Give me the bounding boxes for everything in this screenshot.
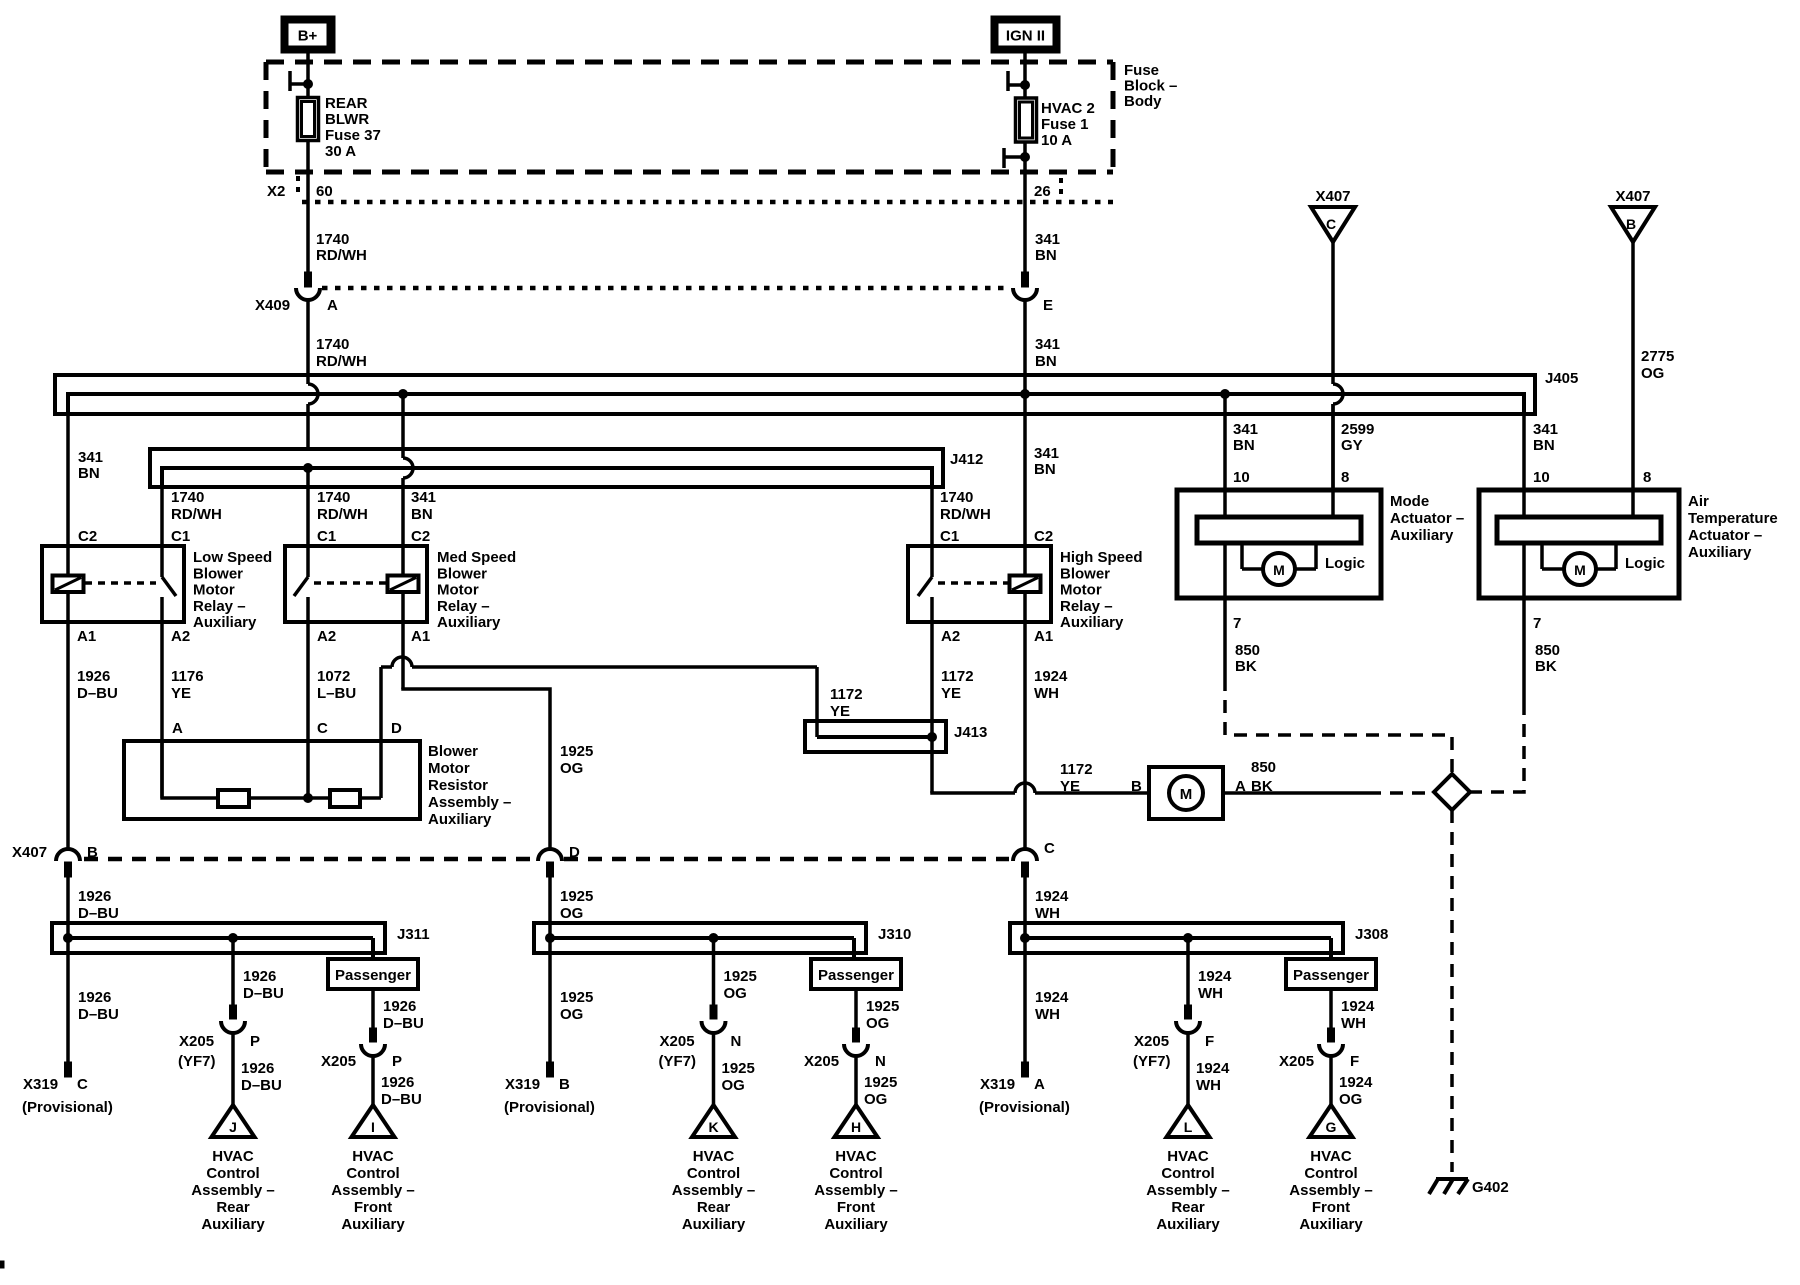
label X205 (YF7) P	[178, 1033, 260, 1070]
svg-text:2599: 2599	[1341, 421, 1374, 438]
svg-text:X407: X407	[12, 844, 47, 861]
svg-text:60: 60	[316, 183, 333, 200]
wire J311 to X319 C	[65, 953, 119, 1077]
label X205 P (right)	[321, 1053, 402, 1070]
junction dot J405 x1025	[1021, 390, 1030, 547]
svg-text:(Provisional): (Provisional)	[22, 1099, 113, 1116]
svg-text:X407: X407	[1315, 188, 1350, 205]
label J412	[950, 451, 983, 468]
svg-text:RD/WH: RD/WH	[316, 247, 367, 264]
svg-text:A1: A1	[411, 628, 430, 645]
label Air Temperature Actuator - Auxiliary	[1688, 493, 1778, 561]
svg-text:C: C	[1326, 216, 1336, 232]
svg-text:OG: OG	[722, 1077, 745, 1094]
svg-text:A2: A2	[171, 628, 190, 645]
svg-text:1924: 1924	[1034, 668, 1068, 685]
svg-text:BN: BN	[1035, 353, 1057, 370]
splice pack J308	[1010, 923, 1343, 959]
label X319 A (Provisional)	[979, 1076, 1070, 1116]
svg-text:Assembly –: Assembly –	[331, 1182, 414, 1199]
svg-text:Logic: Logic	[1325, 555, 1365, 572]
label 1172 YE (resistor D to J413)	[830, 686, 863, 720]
svg-text:10: 10	[1533, 469, 1550, 486]
svg-text:BN: BN	[411, 506, 433, 523]
svg-text:850: 850	[1251, 759, 1276, 776]
wire X205 to HVAC control H	[856, 1056, 897, 1108]
svg-text:C: C	[1044, 840, 1055, 857]
label J413	[954, 724, 987, 741]
svg-text:Actuator –: Actuator –	[1390, 510, 1464, 527]
svg-text:OG: OG	[864, 1091, 887, 1108]
svg-text:Front: Front	[1312, 1199, 1350, 1216]
label HVAC Control Assembly - Rear Auxiliary	[191, 1148, 274, 1233]
wire mode pin 7 (850 BK) to ground splice	[1225, 598, 1452, 774]
svg-text:Temperature: Temperature	[1688, 510, 1778, 527]
svg-text:Auxiliary: Auxiliary	[1390, 527, 1454, 544]
svg-text:C1: C1	[940, 528, 959, 545]
wire J412 to high relay C1	[930, 487, 934, 546]
svg-text:HVAC 2: HVAC 2	[1041, 100, 1095, 117]
svg-text:Assembly –: Assembly –	[672, 1182, 755, 1199]
svg-text:HVAC: HVAC	[693, 1148, 735, 1165]
svg-text:WH: WH	[1341, 1015, 1366, 1032]
svg-text:A: A	[1034, 1076, 1045, 1093]
svg-text:WH: WH	[1198, 985, 1223, 1002]
passenger option box (J308)	[1286, 959, 1376, 989]
connector triangle I	[352, 1105, 395, 1137]
svg-text:A: A	[327, 297, 338, 314]
svg-text:C2: C2	[1034, 528, 1053, 545]
svg-text:1172: 1172	[941, 668, 974, 685]
svg-text:Control: Control	[1304, 1165, 1357, 1182]
splice pack J310	[534, 923, 866, 959]
label 1740 RD/WH C1 (high relay)	[940, 489, 991, 545]
connector triangle L	[1167, 1105, 1210, 1137]
wire J308 to X319 A	[1022, 953, 1070, 1077]
svg-text:HVAC: HVAC	[1310, 1148, 1352, 1165]
label Mode Actuator - Auxiliary	[1390, 493, 1464, 544]
svg-text:Blower: Blower	[428, 743, 478, 760]
svg-text:8: 8	[1341, 469, 1349, 486]
svg-text:YE: YE	[941, 685, 961, 702]
svg-text:B: B	[1131, 778, 1142, 795]
label J405	[1545, 370, 1578, 387]
svg-text:G402: G402	[1472, 1179, 1509, 1196]
wire Passenger to X205 pin N	[844, 989, 899, 1056]
svg-text:X205: X205	[1279, 1053, 1314, 1070]
svg-text:1176: 1176	[171, 668, 204, 685]
svg-text:850: 850	[1235, 642, 1260, 659]
svg-text:G: G	[1326, 1119, 1337, 1135]
junction dot J405 x403	[399, 390, 408, 399]
svg-text:Med Speed: Med Speed	[437, 549, 516, 566]
svg-text:Assembly –: Assembly –	[191, 1182, 274, 1199]
svg-text:RD/WH: RD/WH	[940, 506, 991, 523]
svg-text:Control: Control	[346, 1165, 399, 1182]
relay: High Speed Blower Motor Relay - Auxiliary	[908, 546, 1143, 631]
wire J311 to X205 (YF7) pin P	[221, 938, 284, 1033]
label 1072 L-BU	[317, 668, 356, 702]
fuse 37 clip	[290, 71, 313, 91]
wire X205 to HVAC control L	[1188, 1033, 1230, 1106]
label X205 (YF7) N	[659, 1033, 742, 1070]
label Logic (air temp)	[1625, 555, 1665, 572]
svg-text:Passenger: Passenger	[1293, 967, 1369, 984]
svg-text:Actuator –: Actuator –	[1688, 527, 1762, 544]
svg-text:M: M	[1273, 562, 1285, 578]
label X2 pin 60	[267, 183, 333, 200]
label X319 C (Provisional)	[22, 1076, 113, 1116]
svg-text:341: 341	[1034, 445, 1059, 462]
label HVAC Control Assembly - Rear Auxiliary	[1146, 1148, 1229, 1233]
fuse block - body dashed outline	[266, 62, 1113, 172]
svg-text:1924: 1924	[1341, 998, 1375, 1015]
svg-text:Rear: Rear	[216, 1199, 250, 1216]
svg-text:C1: C1	[171, 528, 190, 545]
label 1924 WH (high A1)	[1034, 668, 1068, 702]
svg-text:Motor: Motor	[1060, 582, 1102, 599]
page artifact mark bottom-left	[0, 1261, 4, 1268]
svg-text:1172: 1172	[1060, 761, 1093, 778]
label 341 BN C2 (med relay)	[411, 489, 436, 545]
svg-text:341: 341	[1035, 231, 1060, 248]
passenger option box (J310)	[811, 959, 901, 989]
label HVAC 2 Fuse 1 10 A	[1041, 100, 1095, 149]
label 1925 OG (med A1)	[560, 743, 593, 777]
svg-text:B: B	[1626, 216, 1636, 232]
wire X205 to HVAC control I	[373, 1056, 422, 1108]
svg-text:BN: BN	[1533, 437, 1555, 454]
svg-text:BN: BN	[1034, 461, 1056, 478]
svg-text:1926: 1926	[381, 1074, 414, 1091]
svg-text:1925: 1925	[560, 989, 593, 1006]
label 1926 D-BU (low A1)	[77, 668, 118, 702]
svg-text:BN: BN	[78, 465, 100, 482]
svg-text:1740: 1740	[316, 231, 349, 248]
svg-text:7: 7	[1233, 615, 1241, 632]
connector X407 D	[538, 844, 580, 877]
label 2775 OG	[1641, 348, 1674, 382]
label J310	[878, 926, 911, 943]
connector triangle H	[835, 1105, 878, 1137]
wire med relay A2 to resistor pin C (1072 L-BU)	[306, 622, 310, 798]
svg-text:1925: 1925	[560, 888, 593, 905]
label 341 BN C2 (high relay)	[1034, 445, 1059, 545]
label HVAC Control Assembly - Front Auxiliary	[814, 1148, 897, 1233]
svg-text:Auxiliary: Auxiliary	[824, 1216, 888, 1233]
wire J405 to low relay C2 (341 BN)	[66, 414, 70, 546]
air temp actuator motor M	[1542, 543, 1616, 585]
svg-text:D–BU: D–BU	[77, 685, 118, 702]
wire 1924 WH X407 to J308	[1025, 877, 1069, 953]
svg-text:X205: X205	[660, 1033, 695, 1050]
svg-text:Control: Control	[687, 1165, 740, 1182]
svg-text:Motor: Motor	[428, 760, 470, 777]
svg-text:Passenger: Passenger	[335, 967, 411, 984]
svg-text:1925: 1925	[866, 998, 899, 1015]
label Fuse Block - Body	[1124, 62, 1177, 110]
svg-text:K: K	[708, 1119, 718, 1135]
svg-text:Assembly –: Assembly –	[814, 1182, 897, 1199]
svg-text:X205: X205	[321, 1053, 356, 1070]
label X409 A / E	[255, 297, 1053, 314]
svg-text:I: I	[371, 1119, 375, 1135]
svg-text:X319: X319	[980, 1076, 1015, 1093]
label 341 BN (above X409)	[1035, 231, 1060, 264]
label J308	[1355, 926, 1388, 943]
svg-text:Auxiliary: Auxiliary	[1156, 1216, 1220, 1233]
svg-text:Auxiliary: Auxiliary	[193, 614, 257, 631]
connector X407 B	[56, 844, 98, 877]
svg-text:Auxiliary: Auxiliary	[1060, 614, 1124, 631]
wire resistor pin D to J413 (1172 YE) with hop over A1 wire	[381, 657, 817, 798]
svg-text:8: 8	[1643, 469, 1651, 486]
svg-text:1740: 1740	[316, 336, 349, 353]
svg-text:10: 10	[1233, 469, 1250, 486]
svg-text:D: D	[391, 720, 402, 737]
svg-text:D–BU: D–BU	[78, 1006, 119, 1023]
label Blower Motor Resistor Assembly - Auxiliary	[428, 743, 511, 828]
svg-text:IGN II: IGN II	[1006, 28, 1045, 45]
svg-text:HVAC: HVAC	[212, 1148, 254, 1165]
svg-text:Blower: Blower	[1060, 565, 1110, 582]
svg-text:A2: A2	[941, 628, 960, 645]
label 341 BN (below X409)	[1035, 336, 1060, 370]
svg-text:1926: 1926	[243, 968, 276, 985]
svg-text:OG: OG	[1641, 365, 1664, 382]
label X407 (row)	[12, 844, 47, 861]
wire low relay A1 to X407 B (1926 D-BU)	[66, 622, 70, 850]
svg-text:WH: WH	[1196, 1077, 1221, 1094]
svg-text:OG: OG	[1339, 1091, 1362, 1108]
svg-text:Rear: Rear	[1171, 1199, 1205, 1216]
svg-text:J308: J308	[1355, 926, 1388, 943]
label 1740 RD/WH (above X409)	[316, 231, 367, 264]
svg-text:2775: 2775	[1641, 348, 1674, 365]
svg-text:M: M	[1574, 562, 1586, 578]
svg-text:1925: 1925	[864, 1074, 897, 1091]
label HVAC Control Assembly - Rear Auxiliary	[672, 1148, 755, 1233]
svg-text:1926: 1926	[383, 998, 416, 1015]
svg-text:1924: 1924	[1196, 1060, 1230, 1077]
svg-text:L: L	[1184, 1119, 1193, 1135]
svg-text:Low Speed: Low Speed	[193, 549, 272, 566]
svg-text:341: 341	[1533, 421, 1558, 438]
svg-text:C2: C2	[411, 528, 430, 545]
label 1740 RD/WH (below X409)	[316, 336, 367, 370]
svg-text:YE: YE	[1060, 778, 1080, 795]
labels A1/A2 relay pins	[77, 628, 1053, 645]
svg-text:HVAC: HVAC	[1167, 1148, 1209, 1165]
svg-text:D–BU: D–BU	[78, 905, 119, 922]
splice pack J405	[55, 375, 1535, 414]
resistor element 1	[218, 790, 249, 807]
connector X409 pin A	[296, 272, 320, 300]
splice J413	[805, 721, 946, 752]
svg-text:Auxiliary: Auxiliary	[1688, 544, 1752, 561]
svg-text:1072: 1072	[317, 668, 350, 685]
svg-text:X319: X319	[23, 1076, 58, 1093]
wire J310 to X319 B	[547, 953, 594, 1077]
svg-text:Fuse: Fuse	[1124, 62, 1159, 79]
svg-text:Auxiliary: Auxiliary	[437, 614, 501, 631]
wire fuse 37 to X409 A	[306, 140, 310, 272]
svg-text:REAR: REAR	[325, 95, 368, 112]
label 1740 RD/WH C1 (med relay)	[317, 489, 368, 545]
svg-text:J: J	[229, 1119, 237, 1135]
labels 341 BN 10 (air temp)	[1533, 421, 1558, 486]
labels 341 BN 10 (mode)	[1233, 421, 1258, 486]
svg-text:Auxiliary: Auxiliary	[682, 1216, 746, 1233]
svg-text:1172: 1172	[830, 686, 863, 703]
svg-text:Mode: Mode	[1390, 493, 1429, 510]
relay: Med Speed Blower Motor Relay - Auxiliary	[285, 546, 516, 631]
mode actuator - auxiliary box	[1177, 490, 1381, 598]
fuse F1 HVAC 2 10A	[1016, 98, 1037, 142]
wire Passenger to X205 pin P	[361, 989, 424, 1056]
svg-text:X409: X409	[255, 297, 290, 314]
svg-text:Body: Body	[1124, 93, 1162, 110]
svg-text:1926: 1926	[77, 668, 110, 685]
svg-text:J405: J405	[1545, 370, 1578, 387]
wire X409 A to J405	[306, 299, 310, 384]
svg-text:Assembly –: Assembly –	[428, 794, 511, 811]
svg-text:Blower: Blower	[193, 565, 243, 582]
svg-text:BK: BK	[1535, 658, 1557, 675]
dashed wire splice to G402	[1450, 810, 1454, 1172]
svg-text:1926: 1926	[241, 1060, 274, 1077]
svg-text:Auxiliary: Auxiliary	[341, 1216, 405, 1233]
wire X205 to HVAC control K	[714, 1033, 755, 1106]
label 341 BN C2 (low relay)	[78, 449, 103, 545]
svg-text:N: N	[875, 1053, 886, 1070]
svg-text:D–BU: D–BU	[243, 985, 284, 1002]
label pin 26	[1034, 183, 1051, 200]
svg-text:X319: X319	[505, 1076, 540, 1093]
svg-text:1925: 1925	[560, 743, 593, 760]
svg-text:(Provisional): (Provisional)	[504, 1099, 595, 1116]
wire high relay A2 to blower motor B (1172 YE)	[932, 622, 1149, 793]
svg-text:1926: 1926	[78, 888, 111, 905]
label X319 B (Provisional)	[504, 1076, 595, 1116]
svg-text:WH: WH	[1035, 905, 1060, 922]
svg-text:OG: OG	[560, 760, 583, 777]
mode actuator pin wires	[1225, 394, 1333, 598]
svg-text:Passenger: Passenger	[818, 967, 894, 984]
svg-text:OG: OG	[560, 1006, 583, 1023]
svg-text:1925: 1925	[722, 1060, 755, 1077]
wire Passenger to X205 pin F	[1319, 989, 1375, 1056]
svg-text:X205: X205	[179, 1033, 214, 1050]
wire X407 C to mode actuator pin 8	[1331, 242, 1335, 384]
svg-text:WH: WH	[1035, 1006, 1060, 1023]
splice pack J412	[150, 449, 943, 487]
wire X205 to HVAC control J	[233, 1033, 282, 1106]
mode actuator motor M	[1242, 543, 1316, 585]
svg-text:A: A	[172, 720, 183, 737]
svg-text:Relay –: Relay –	[1060, 598, 1113, 615]
connector X407 B (triangle)	[1611, 188, 1655, 242]
svg-text:P: P	[250, 1033, 260, 1050]
svg-text:Rear: Rear	[697, 1199, 731, 1216]
air temp actuator pin wires	[1524, 394, 1633, 598]
svg-text:7: 7	[1533, 615, 1541, 632]
svg-text:Auxiliary: Auxiliary	[1299, 1216, 1363, 1233]
svg-text:P: P	[392, 1053, 402, 1070]
svg-text:Control: Control	[1161, 1165, 1214, 1182]
wire 1925 OG X407 to J310	[550, 877, 593, 953]
relay: Low Speed Blower Motor Relay - Auxiliary	[42, 546, 272, 631]
svg-text:26: 26	[1034, 183, 1051, 200]
svg-text:Air: Air	[1688, 493, 1709, 510]
svg-text:B: B	[87, 844, 98, 861]
svg-text:BK: BK	[1235, 658, 1257, 675]
label 1176 YE	[171, 668, 204, 702]
svg-text:RD/WH: RD/WH	[317, 506, 368, 523]
label 8 (air temp)	[1643, 469, 1651, 486]
svg-text:Fuse 1: Fuse 1	[1041, 116, 1089, 133]
wire X409 E to J405	[1023, 299, 1027, 390]
svg-text:GY: GY	[1341, 437, 1363, 454]
air temperature actuator - auxiliary box	[1479, 490, 1679, 598]
resistor assembly pin labels A C D	[172, 720, 402, 737]
svg-text:Relay –: Relay –	[437, 598, 490, 615]
svg-text:HVAC: HVAC	[835, 1148, 877, 1165]
svg-text:Assembly –: Assembly –	[1146, 1182, 1229, 1199]
label X205 (YF7) F	[1133, 1033, 1214, 1070]
svg-text:OG: OG	[866, 1015, 889, 1032]
label J311	[397, 926, 430, 943]
svg-text:10 A: 10 A	[1041, 132, 1072, 149]
svg-text:YE: YE	[171, 685, 191, 702]
svg-text:Resistor: Resistor	[428, 777, 488, 794]
svg-text:C: C	[77, 1076, 88, 1093]
svg-text:Logic: Logic	[1625, 555, 1665, 572]
svg-text:1924: 1924	[1198, 968, 1232, 985]
mode actuator slider bar	[1197, 517, 1361, 543]
svg-text:(Provisional): (Provisional)	[979, 1099, 1070, 1116]
svg-text:WH: WH	[1034, 685, 1059, 702]
svg-text:Front: Front	[354, 1199, 392, 1216]
blower motor resistor assembly - auxiliary box	[124, 741, 420, 819]
svg-text:High Speed: High Speed	[1060, 549, 1143, 566]
svg-text:A2: A2	[317, 628, 336, 645]
wire high relay A1 to X407 C (1924 WH)	[1023, 622, 1027, 850]
svg-text:M: M	[1180, 786, 1193, 803]
svg-text:Auxiliary: Auxiliary	[201, 1216, 265, 1233]
svg-text:(YF7): (YF7)	[659, 1053, 697, 1070]
svg-text:X205: X205	[1134, 1033, 1169, 1050]
label HVAC Control Assembly - Front Auxiliary	[331, 1148, 414, 1233]
svg-text:Motor: Motor	[437, 582, 479, 599]
fuse F37 REAR BLWR 30A	[298, 98, 319, 141]
label B / A / 850 BK (blower motor)	[1131, 759, 1276, 795]
dashed line X407 row	[84, 857, 1009, 862]
svg-text:B: B	[559, 1076, 570, 1093]
svg-text:Control: Control	[206, 1165, 259, 1182]
label Logic (mode)	[1325, 555, 1365, 572]
label X205 F (right)	[1279, 1053, 1359, 1070]
wire J405 to med relay C2 with hop over J412	[403, 394, 413, 546]
svg-text:B+: B+	[298, 28, 318, 45]
svg-text:X205: X205	[804, 1053, 839, 1070]
passenger option box (J311)	[328, 959, 418, 989]
wire J310 to X205 (YF7) pin N	[702, 938, 757, 1033]
svg-text:X2: X2	[267, 183, 285, 200]
hop: B+ wire over J405 bus	[308, 384, 318, 449]
svg-text:E: E	[1043, 297, 1053, 314]
svg-text:D: D	[569, 844, 580, 861]
